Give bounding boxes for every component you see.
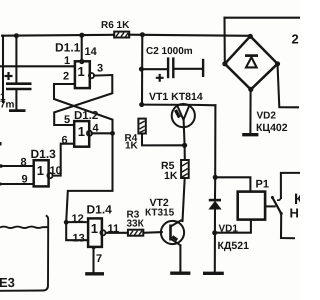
svg-text:33К: 33К xyxy=(127,219,145,230)
svg-text:P1: P1 xyxy=(256,179,269,191)
svg-text:C2 1000m: C2 1000m xyxy=(146,46,193,57)
svg-text:1: 1 xyxy=(64,55,70,67)
svg-text:D1.4: D1.4 xyxy=(87,203,113,217)
svg-text:КЦ402: КЦ402 xyxy=(256,122,288,134)
svg-text:7m: 7m xyxy=(0,100,15,111)
svg-text:D1.2: D1.2 xyxy=(74,110,98,122)
svg-text:4: 4 xyxy=(93,123,100,135)
svg-text:7: 7 xyxy=(96,253,102,265)
svg-text:13: 13 xyxy=(73,233,85,245)
svg-text:11: 11 xyxy=(108,223,120,235)
svg-text:1: 1 xyxy=(78,124,85,139)
svg-text:R6 1K: R6 1K xyxy=(101,20,130,31)
svg-text:5: 5 xyxy=(64,114,70,126)
svg-text:VD2: VD2 xyxy=(257,111,277,122)
svg-text:1: 1 xyxy=(91,221,98,236)
svg-text:VT1 KT814: VT1 KT814 xyxy=(149,91,203,103)
svg-text:1: 1 xyxy=(37,163,44,178)
svg-text:12: 12 xyxy=(72,213,84,225)
svg-text:Н: Н xyxy=(290,206,299,221)
svg-text:1: 1 xyxy=(78,64,85,79)
svg-text:VD1: VD1 xyxy=(219,224,239,235)
svg-text:КТ315: КТ315 xyxy=(145,208,175,219)
svg-text:6: 6 xyxy=(62,135,68,147)
svg-text:D1.1: D1.1 xyxy=(55,41,81,55)
svg-text:8: 8 xyxy=(21,157,27,169)
svg-text:E3: E3 xyxy=(0,275,15,290)
svg-text:3: 3 xyxy=(97,63,103,75)
svg-text:10: 10 xyxy=(50,165,62,177)
svg-text:КД521: КД521 xyxy=(218,240,250,252)
svg-text:2: 2 xyxy=(63,71,69,83)
svg-text:2: 2 xyxy=(292,32,299,47)
svg-text:9: 9 xyxy=(22,174,28,186)
svg-text:D1.3: D1.3 xyxy=(31,147,57,161)
svg-text:1K: 1K xyxy=(125,141,139,152)
svg-text:14: 14 xyxy=(85,46,98,58)
svg-text:1K: 1K xyxy=(164,170,178,182)
